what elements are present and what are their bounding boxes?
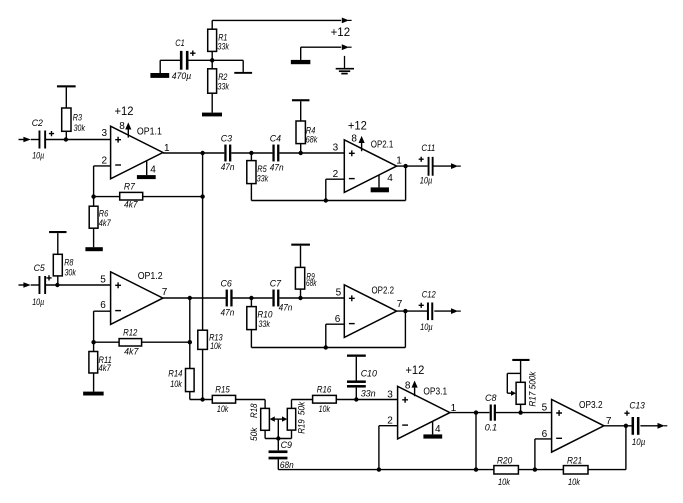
op-amp OP2.1 <box>344 140 396 193</box>
junction R17 bottom node <box>518 410 522 414</box>
svg-text:R14: R14 <box>168 368 182 379</box>
wire node to R7 <box>94 196 120 198</box>
wire R2 bottom <box>211 93 213 112</box>
op-amp OP1.2 <box>111 272 163 325</box>
wire R9 bottom stem <box>300 289 302 298</box>
wire T-bar to R9 <box>300 246 302 268</box>
node output 2 arrow <box>451 308 458 314</box>
resistor R13 <box>198 330 208 349</box>
node +12 source arrow <box>342 44 349 50</box>
junction R4 bottom node <box>299 151 303 155</box>
svg-text:C5: C5 <box>34 263 46 274</box>
wire T-bar to R4 <box>300 101 302 121</box>
resistor R11 <box>89 352 98 374</box>
svg-text:C10: C10 <box>361 368 378 379</box>
wire OP2.2 pin6 riser <box>325 324 327 347</box>
svg-text:4k7: 4k7 <box>99 363 112 374</box>
wire R1 bottom to node <box>211 51 213 68</box>
svg-text:10µ: 10µ <box>420 176 433 187</box>
resistor R2 <box>208 69 217 93</box>
wire bottom bus left <box>278 469 494 471</box>
svg-text:8: 8 <box>405 381 411 392</box>
svg-text:7: 7 <box>162 287 168 298</box>
svg-text:R15: R15 <box>215 384 230 395</box>
capacitor C13 <box>632 417 635 435</box>
wire R14 top stem <box>189 342 191 368</box>
wire R4 bottom stem <box>300 144 302 153</box>
svg-text:4: 4 <box>150 165 156 176</box>
svg-text:10µ: 10µ <box>632 437 646 448</box>
label C1 polarity + <box>190 51 195 56</box>
svg-text:33n: 33n <box>361 388 376 399</box>
bias rail stub above R4 <box>292 99 310 101</box>
svg-text:10µ: 10µ <box>32 150 44 161</box>
wire T-bar to C10 <box>355 357 357 381</box>
wire R19 bottom stem <box>291 430 293 438</box>
wire OP2.1 output <box>397 165 428 167</box>
capacitor C10 <box>347 380 366 383</box>
wire T-bar to R8 <box>57 233 59 254</box>
wire R17 bottom stem <box>520 404 522 412</box>
svg-text:R7: R7 <box>124 181 136 192</box>
wire pot node to C9 <box>277 439 279 451</box>
potentiometer R19 <box>287 408 295 430</box>
capacitor C1 <box>180 51 183 70</box>
wire C3 to C4 <box>231 152 272 154</box>
svg-text:47n: 47n <box>279 303 293 314</box>
wire R19 top stem <box>291 400 293 409</box>
wire C4 to OP2.1 pin3 <box>279 152 344 154</box>
wire OP2.1 pin2 riser <box>325 179 327 200</box>
wire OP1.2 pin6 left <box>94 310 111 312</box>
svg-text:C9: C9 <box>281 440 293 451</box>
svg-text:33k: 33k <box>217 41 230 52</box>
resistor R15 <box>212 395 235 403</box>
capacitor C3 <box>224 145 226 162</box>
svg-text:5: 5 <box>100 275 106 286</box>
wire OP3.2 pin6 left <box>535 438 552 440</box>
wire C8 to OP3.2 pin5 <box>496 412 552 414</box>
svg-text:C3: C3 <box>221 133 233 144</box>
junction OP3.2 pin6 / bus <box>533 467 537 471</box>
svg-text:4k7: 4k7 <box>124 200 138 211</box>
junction C10 bottom node <box>354 397 358 401</box>
wire R7 to feedback node <box>143 196 203 198</box>
earth ground symbol <box>344 56 346 69</box>
resistor R1 <box>208 29 217 51</box>
wire C9 bottom to bus <box>277 460 279 470</box>
capacitor C4 <box>272 145 274 162</box>
junction R7/feedback vertical <box>200 194 204 198</box>
svg-text:R19: R19 <box>296 419 307 434</box>
bias rail stub above R9 <box>291 244 310 246</box>
capacitor C6 <box>226 290 228 307</box>
svg-text:30k: 30k <box>74 123 86 134</box>
capacitor C5 <box>39 276 41 294</box>
wire T-bar to R3 <box>65 87 67 108</box>
power arrow OP3.1 pin8 <box>412 381 418 388</box>
svg-text:OP2.2: OP2.2 <box>372 285 395 296</box>
wire C10 to node <box>355 388 357 400</box>
wire OP1.1 output <box>163 152 224 154</box>
svg-text:50k: 50k <box>249 426 260 441</box>
svg-text:2: 2 <box>333 169 339 180</box>
svg-text:4k7: 4k7 <box>99 218 112 229</box>
junction R12/R14/riser node <box>188 340 192 344</box>
ground R11 <box>83 392 104 396</box>
wire R12 to feedback node <box>142 341 190 343</box>
bias rail stub above C10 <box>347 355 366 357</box>
capacitor C9 <box>269 450 288 453</box>
label C12 polarity + <box>419 303 424 308</box>
svg-text:R16: R16 <box>317 384 332 395</box>
resistor R6 <box>89 206 98 228</box>
capacitor C11 <box>428 157 430 176</box>
node input 1 arrow <box>19 139 25 141</box>
svg-text:33k: 33k <box>217 82 230 93</box>
svg-text:47n: 47n <box>221 307 235 318</box>
svg-text:3: 3 <box>102 128 108 139</box>
op-amp OP1.1 <box>111 126 163 179</box>
resistor R3 <box>62 108 71 131</box>
wire C2 to OP1.1 pin3 <box>45 139 111 141</box>
svg-text:+12: +12 <box>115 106 134 118</box>
svg-text:10µ: 10µ <box>32 297 44 308</box>
wire C7 to OP2.2 pin5 <box>279 297 344 299</box>
svg-text:2: 2 <box>102 156 108 167</box>
junction R6/R7/pin2 node <box>91 194 95 198</box>
junction OP3.1 out node <box>474 410 478 414</box>
svg-text:C8: C8 <box>485 393 497 404</box>
ground R6 <box>85 247 102 251</box>
svg-text:33k: 33k <box>258 319 271 330</box>
wire R1 top stem <box>211 20 213 29</box>
wiper R17 <box>507 372 520 374</box>
wire R6 top stem <box>93 197 95 207</box>
svg-text:R21: R21 <box>567 455 582 466</box>
svg-text:68k: 68k <box>306 135 319 146</box>
wire C13 node riser <box>625 426 627 470</box>
junction OP2.1 pin2 riser <box>324 198 328 202</box>
bias rail stub above R17 <box>512 359 529 361</box>
wire OP1.1 pin2 left <box>94 165 111 167</box>
wire OP1.1 feedback vertical <box>202 153 204 330</box>
wire R20 to R21 <box>518 469 563 471</box>
svg-text:68k: 68k <box>306 278 317 289</box>
svg-text:+12: +12 <box>331 27 351 39</box>
svg-text:10µ: 10µ <box>420 322 433 333</box>
ground OP1.1 pin4 <box>137 175 156 179</box>
wire pot bottom bus <box>265 438 291 440</box>
svg-text:50k: 50k <box>296 401 307 416</box>
svg-text:OP1.1: OP1.1 <box>137 127 162 138</box>
wire OP1.2 pin6 down <box>93 311 95 342</box>
wire OP2.1 feedback bottom <box>251 200 405 202</box>
wiper R18 <box>270 416 275 421</box>
capacitor C7 <box>272 290 274 307</box>
capacitor C2 <box>39 131 41 149</box>
svg-text:33k: 33k <box>257 173 270 184</box>
svg-text:R12: R12 <box>123 327 138 338</box>
junction OP2.2 pin6 riser <box>324 345 328 349</box>
svg-text:8: 8 <box>119 121 125 132</box>
wire R15 to R18 <box>236 399 266 401</box>
wire OP3.1 pin2 down <box>378 426 380 470</box>
svg-text:R17 500k: R17 500k <box>527 371 538 407</box>
junction R9 bottom node <box>298 296 302 300</box>
wire C6 to C7 <box>232 297 272 299</box>
svg-text:1: 1 <box>396 156 402 167</box>
wire R8 to node <box>57 276 59 285</box>
junction R1/R2/C1 node <box>210 58 214 62</box>
svg-text:10k: 10k <box>498 477 511 488</box>
svg-text:4: 4 <box>435 424 441 435</box>
wire R3 to node <box>65 131 67 139</box>
svg-text:R20: R20 <box>497 455 513 466</box>
junction OP2.1 out node <box>403 164 407 168</box>
wire input to C5 <box>31 284 40 286</box>
svg-text:C7: C7 <box>270 278 282 289</box>
svg-text:7: 7 <box>397 299 403 310</box>
resistor R7 <box>120 192 143 200</box>
label C5 polarity + <box>46 275 51 280</box>
resistor R9 <box>295 267 304 289</box>
wire OP3.1 pin2 left <box>379 425 398 427</box>
ground OP3.1 pin4 <box>423 434 442 438</box>
junction R11/R12/pin6 node <box>91 340 95 344</box>
label C11 polarity + <box>419 157 424 162</box>
svg-text:C13: C13 <box>629 400 645 411</box>
svg-text:470µ: 470µ <box>172 71 192 82</box>
svg-text:C11: C11 <box>421 143 435 154</box>
wire OP2.2 feedback bottom <box>251 347 405 349</box>
wire OP2.1 feedback down <box>405 166 407 200</box>
wire T-bar to R17 <box>520 361 522 382</box>
wire OP3.2 output <box>604 425 633 427</box>
wire R11 top stem <box>93 342 95 351</box>
wire R5 bottom stem <box>250 184 252 201</box>
node output 1 arrow <box>451 163 458 169</box>
resistor R14 <box>186 369 195 392</box>
svg-text:10k: 10k <box>170 379 183 390</box>
bias rail stub above R3 <box>57 85 76 87</box>
wire +12 source <box>300 47 302 60</box>
junction OP2.2 out node <box>403 309 407 313</box>
wire wiper junction drop <box>277 419 279 438</box>
junction R3 bottom node <box>64 137 68 141</box>
svg-text:10k: 10k <box>210 341 222 352</box>
wire input to C2 <box>31 139 40 141</box>
svg-text:10k: 10k <box>217 404 229 415</box>
junction R5 top node <box>249 151 253 155</box>
svg-text:C2: C2 <box>32 118 44 129</box>
bias rail stub near C1 <box>234 72 252 74</box>
wire OP1.2 output <box>163 297 226 299</box>
resistor R20 <box>494 466 519 474</box>
wire R10 top stem <box>250 298 252 307</box>
svg-text:3: 3 <box>333 143 339 154</box>
wire OP2.1 pin4 stem <box>378 175 380 188</box>
svg-text:OP3.2: OP3.2 <box>579 400 603 411</box>
svg-text:4: 4 <box>387 173 393 184</box>
bias rail stub above R8 <box>49 231 66 233</box>
junction R13 bottom node <box>200 397 204 401</box>
wire R11 bottom <box>93 373 95 392</box>
svg-text:6: 6 <box>100 300 106 311</box>
wire OP2.2 feedback down <box>404 311 406 347</box>
wire +12 rail from R1 top <box>212 19 341 21</box>
wire OP3.1 out riser <box>475 413 477 470</box>
wire OP3.1 output <box>450 412 490 414</box>
svg-text:4k7: 4k7 <box>124 347 139 358</box>
svg-text:C4: C4 <box>270 133 281 144</box>
capacitor C12 <box>427 303 429 321</box>
wire OP3.1 pin4 stem <box>432 422 434 435</box>
wire node to R12 <box>94 341 120 343</box>
resistor R8 <box>53 254 62 276</box>
resistor R12 <box>119 339 142 346</box>
label C2 polarity + <box>49 131 54 136</box>
wire OP3.2 pin6 down <box>534 439 536 470</box>
wire OP1.1 pin2 down <box>93 166 95 197</box>
power arrow OP1.1 pin8 <box>125 122 131 129</box>
svg-text:C6: C6 <box>221 278 233 289</box>
ground R2 <box>202 113 222 117</box>
wire C12 to out arrow <box>434 310 452 312</box>
svg-text:3: 3 <box>387 389 393 400</box>
label C13 polarity + <box>624 411 629 416</box>
svg-text:C1: C1 <box>175 38 184 49</box>
junction pot wiper node <box>276 436 280 440</box>
power arrow OP2.1 pin8 <box>359 136 365 143</box>
wire C1 right to node <box>188 59 212 61</box>
wire R5 top stem <box>250 153 252 161</box>
junction OP3.1 pin2 / bus <box>377 467 381 471</box>
junction R10 top node <box>249 296 253 300</box>
wire R16 to OP3.1 pin3 <box>336 399 397 401</box>
svg-text:OP1.2: OP1.2 <box>138 271 163 282</box>
svg-text:R18: R18 <box>249 403 260 418</box>
wire R18 bottom stem <box>264 430 266 438</box>
junction OP1.2 out / R12 riser <box>188 296 192 300</box>
wire R14 bottom stem <box>189 392 191 400</box>
wire C13 to out arrow <box>640 425 658 427</box>
ground OP2.1 pin4 <box>371 187 389 192</box>
svg-text:5: 5 <box>542 403 548 414</box>
wire C11 to out arrow <box>434 165 452 167</box>
svg-text:10k: 10k <box>568 477 581 488</box>
trimmer R17 <box>516 382 525 404</box>
wire OP2.2 output <box>397 310 428 312</box>
resistor R10 <box>247 307 256 330</box>
node input 2 arrow <box>19 284 25 286</box>
resistor R4 <box>296 121 305 144</box>
svg-text:5: 5 <box>336 288 342 299</box>
node output 3 arrow <box>658 423 665 429</box>
capacitor C8 <box>490 405 492 421</box>
svg-text:10k: 10k <box>319 404 331 415</box>
op-amp OP3.1 <box>398 386 450 439</box>
node +12 rail arrow <box>342 18 349 24</box>
svg-text:30k: 30k <box>65 267 77 278</box>
op-amp OP3.2 <box>552 400 604 453</box>
svg-text:8: 8 <box>351 134 357 145</box>
svg-text:OP3.1: OP3.1 <box>423 386 447 397</box>
svg-text:0.1: 0.1 <box>485 422 498 433</box>
op-amp OP2.2 <box>344 285 396 338</box>
svg-text:47n: 47n <box>221 162 235 173</box>
wiper R19 <box>282 416 287 421</box>
resistor R5 <box>247 161 256 184</box>
junction OP1.1 out / feedback <box>200 151 204 155</box>
potentiometer R18 <box>261 408 270 430</box>
wire C1 left to ground <box>160 59 181 61</box>
junction R8 bottom node <box>55 283 59 287</box>
svg-text:47n: 47n <box>270 163 284 174</box>
wire R13 bottom stem <box>202 349 204 399</box>
wire R10 bottom stem <box>250 330 252 348</box>
resistor R16 <box>313 395 337 403</box>
junction OP3.1 out riser / bus <box>474 467 478 471</box>
wire OP1.1 pin4 stem <box>146 161 148 175</box>
ground bar of +12 source <box>291 60 311 64</box>
junction OP3.2 out node <box>624 424 628 428</box>
wire C5 to OP1.2 pin5 <box>45 284 111 286</box>
svg-text:+12: +12 <box>348 121 367 133</box>
resistor R21 <box>563 466 588 474</box>
svg-text:OP2.1: OP2.1 <box>371 139 394 150</box>
svg-text:6: 6 <box>335 314 341 325</box>
svg-text:+12: +12 <box>405 365 424 377</box>
wire R6 bottom <box>93 228 95 247</box>
svg-text:C12: C12 <box>422 290 436 301</box>
wire node to bias T-bar <box>212 59 243 61</box>
wire R12 riser <box>189 298 191 342</box>
ground C1 <box>150 73 169 78</box>
